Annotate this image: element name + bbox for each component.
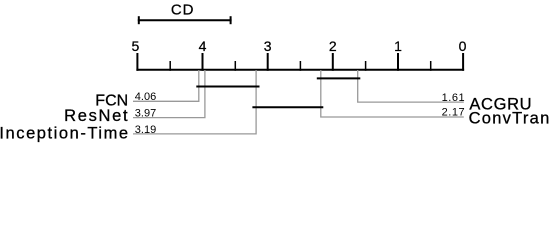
- CD interval bar: [138, 16, 232, 24]
- svg-text:1: 1: [394, 38, 402, 54]
- major tick 2: [332, 53, 334, 71]
- svg-text:2: 2: [329, 38, 337, 54]
- svg-text:ConvTran: ConvTran: [469, 109, 550, 127]
- connector ACGRU: [358, 70, 464, 102]
- svg-text:2.17: 2.17: [442, 107, 466, 119]
- svg-text:5: 5: [132, 38, 140, 54]
- clique bar InceptionTime-ConvTran: [252, 106, 323, 108]
- svg-text:CD: CD: [171, 2, 194, 19]
- clique bar ConvTran-ACGRU: [317, 77, 361, 79]
- major tick 4: [202, 53, 204, 71]
- minor tick 0.5: [430, 61, 432, 71]
- svg-text:3: 3: [264, 38, 272, 54]
- svg-text:1.61: 1.61: [442, 92, 466, 104]
- major tick 1: [397, 53, 399, 71]
- major tick 0: [462, 53, 464, 71]
- connector ConvTran: [321, 70, 464, 117]
- minor tick 1.5: [365, 61, 367, 71]
- connector FCN: [133, 70, 199, 101]
- major tick 3: [267, 53, 269, 71]
- svg-text:0: 0: [459, 38, 467, 54]
- minor tick 3.5: [234, 61, 236, 71]
- svg-text:Inception-Time: Inception-Time: [0, 125, 130, 143]
- minor tick 2.5: [299, 61, 301, 71]
- clique bar FCN-ResNet-InceptionTime: [196, 86, 259, 88]
- svg-text:ResNet: ResNet: [64, 107, 129, 125]
- minor tick 4.5: [169, 61, 171, 71]
- connector Inception-Time: [133, 70, 256, 134]
- svg-text:4: 4: [199, 38, 207, 54]
- svg-text:3.19: 3.19: [135, 124, 156, 136]
- major tick 5: [136, 53, 138, 71]
- connector ResNet: [133, 70, 205, 118]
- svg-text:4.06: 4.06: [135, 91, 156, 103]
- axis line: [136, 69, 464, 71]
- svg-text:3.97: 3.97: [135, 108, 156, 120]
